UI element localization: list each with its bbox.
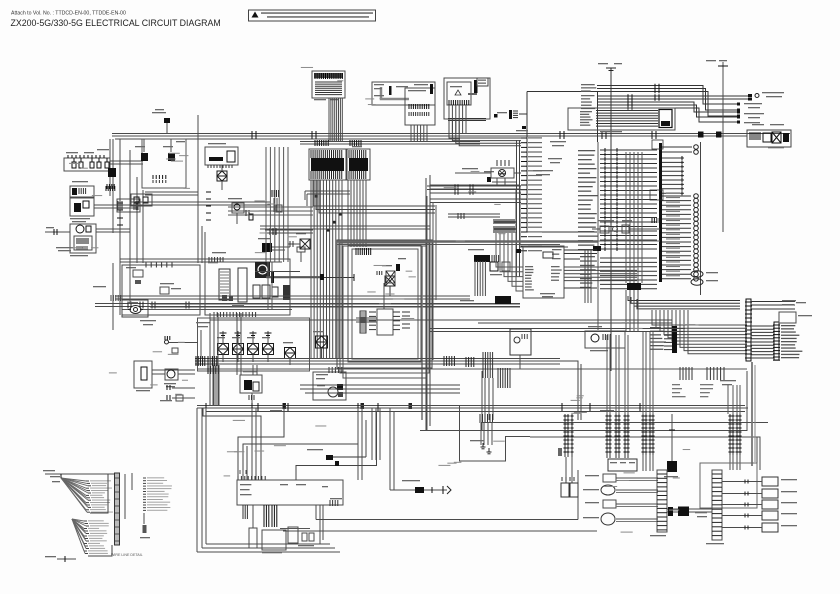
- svg-text:ZX200-5G/330-5G ELECTRICAL CIR: ZX200-5G/330-5G ELECTRICAL CIRCUIT DIAGR…: [11, 18, 221, 28]
- svg-text:WIRE LINE DETAIL: WIRE LINE DETAIL: [111, 553, 143, 557]
- svg-text:Attach to Vol. No. : TTDCD-EN-: Attach to Vol. No. : TTDCD-EN-00, TTDDE-…: [11, 11, 126, 17]
